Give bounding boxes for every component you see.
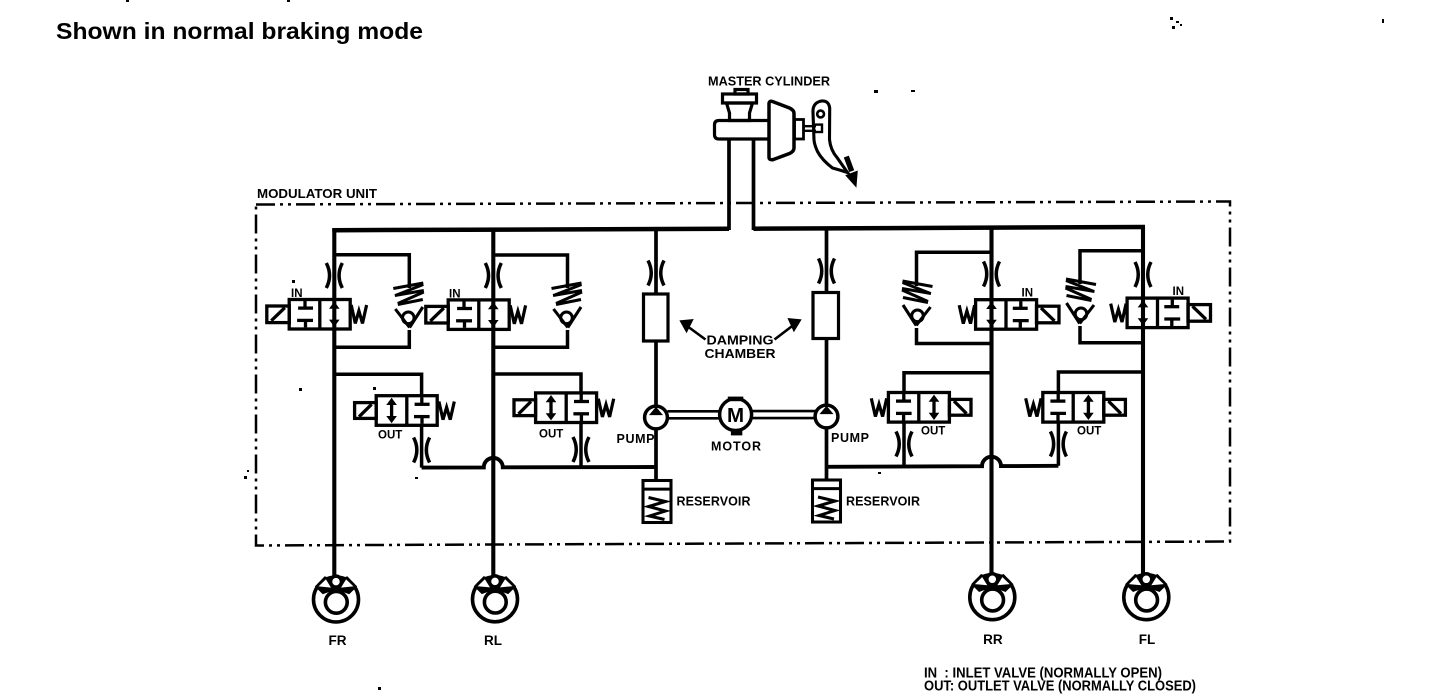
damping chamber arrow left [682,321,706,340]
booster output box [795,120,804,140]
top bus left circuit [332,229,729,230]
check valve CV1 [393,283,424,328]
wheel RL [473,576,518,622]
connector pair OUT2 [573,437,589,462]
pipe from master cylinder (primary) [727,139,731,230]
check valve CV2 [552,283,583,328]
svg-text:MOTOR: MOTOR [711,440,761,454]
outlet valve OUT1 (FR) [355,396,455,426]
reservoir 1 [643,481,671,523]
return bus left with hop over RL [422,458,656,468]
pedal force arrow [844,156,854,173]
connector pair OUT3 [896,432,912,457]
outlet branch wire RR [904,373,992,392]
wheel FL [1124,574,1169,620]
connector pair damping line 2 [819,259,835,284]
motor shaft left [668,411,721,418]
svg-text:OUT: OUT [539,429,563,441]
svg-text:RL: RL [484,633,502,648]
damping chamber arrow right [775,320,800,340]
svg-text:MASTER CYLINDER: MASTER CYLINDER [708,74,831,89]
svg-text:IN: IN [449,289,461,301]
check valve loop FR wires [334,255,409,347]
wheel RR [970,574,1015,620]
connector pair channel FR [326,263,342,288]
connector pair damping line 1 [648,261,664,286]
outlet valve OUT1 return wire [420,425,424,467]
pump 1 [645,406,668,429]
outlet valve OUT4 return wire [1057,423,1061,466]
svg-text:FL: FL [1139,632,1156,647]
svg-text:IN: IN [1173,286,1185,298]
svg-text:RESERVOIR: RESERVOIR [846,495,920,509]
brake booster [769,101,794,159]
outlet branch wire RL [493,374,581,393]
svg-text:MODULATOR UNIT: MODULATOR UNIT [257,187,377,201]
svg-text:OUT: OUT [921,426,945,438]
channel RL vertical [491,228,495,577]
outlet valve OUT3 return wire [902,423,906,466]
svg-text:Shown in normal braking mode: Shown in normal braking mode [56,18,423,44]
svg-text:M: M [727,404,744,427]
svg-text:OUT: OUTLET VALVE (NORMALLY CL: OUT: OUTLET VALVE (NORMALLY CLOSED) [924,679,1196,695]
pushrod [804,126,817,131]
svg-text:IN: IN [1022,288,1034,300]
inlet valve IN2 (RL) [426,300,526,330]
outlet valve OUT3 (RR) mirrored [871,393,971,423]
svg-text:DAMPING: DAMPING [707,334,774,348]
connector pair channel RL [485,263,501,288]
outlet valve OUT2 (RL) [514,393,614,423]
inlet valve IN3 (RR) mirrored [959,300,1059,330]
inlet valve IN1 (FR) [267,300,367,330]
wheel FR [314,576,359,622]
svg-text:OUT: OUT [378,430,402,442]
svg-text:IN: IN [291,288,303,300]
svg-text:PUMP: PUMP [831,431,869,445]
outlet branch wire FL [1058,372,1143,392]
master cylinder body [715,90,770,140]
connector pair OUT4 [1050,432,1066,457]
svg-text:OUT: OUT [1077,426,1101,438]
connector pair channel RR [984,262,1000,287]
pipe from master cylinder (secondary) [752,139,756,230]
damping chamber 2 [813,293,839,339]
pushrod clevis [814,125,822,132]
svg-text:CHAMBER: CHAMBER [705,347,776,361]
svg-text:RR: RR [983,632,1003,647]
svg-text:RESERVOIR: RESERVOIR [677,495,751,509]
check valve loop FL wires [1080,251,1143,343]
damping line 2 vertical [825,228,829,481]
pump 2 [815,405,838,428]
check valve loop RR wires [917,252,992,343]
brake pedal arm [813,101,848,173]
outlet valve OUT4 (FL) mirrored [1026,393,1126,423]
motor M [720,397,752,436]
top bus right circuit [754,227,1146,229]
check valve loop RL wires [493,255,567,347]
motor shaft right [752,411,816,418]
svg-text:FR: FR [329,633,347,648]
channel RR vertical [989,227,993,576]
connector pair OUT1 [414,438,430,463]
return bus right with hop over RR [827,457,1059,467]
connector pair channel FL [1135,262,1151,287]
outlet branch wire FR [334,374,421,396]
channel FL vertical [1141,227,1145,576]
outlet valve OUT2 return wire [579,423,583,468]
svg-text:PUMP: PUMP [617,432,655,446]
pedal pivot hole [817,111,824,118]
check valve CV3 [902,281,933,326]
check valve CV4 [1066,279,1097,324]
damping chamber 1 [644,294,669,341]
modulator unit dashed border [256,202,1230,546]
channel FR vertical [332,228,336,577]
reservoir 2 [813,480,841,522]
inlet valve IN4 (FL) mirrored [1111,298,1211,328]
damping line 1 vertical [654,229,658,481]
